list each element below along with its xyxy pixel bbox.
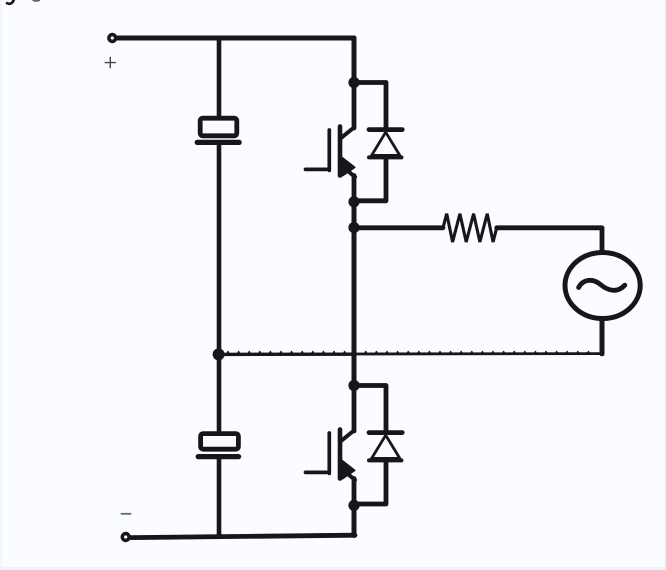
Q1 emitter diagonal	[341, 165, 356, 177]
D1 anode bar	[369, 155, 401, 159]
D1 triangle	[372, 132, 400, 155]
wire: output to resistor	[354, 225, 443, 230]
capacitor C1	[197, 118, 239, 142]
wire: C2 to bottom bus	[217, 459, 222, 537]
Q2 collector diagonal	[340, 431, 354, 442]
wire: C1 to midpoint node	[217, 145, 222, 352]
capacitor C2	[217, 357, 222, 433]
Q2 emitter diagonal	[341, 468, 356, 480]
node: Q2 collector junction	[348, 380, 359, 391]
negative terminal	[122, 534, 129, 541]
wire: bottom DC- bus	[131, 535, 355, 537]
wire: Q1 emitter stub	[352, 176, 357, 202]
Q1 collector diagonal	[340, 128, 354, 139]
Q2 gate lead	[306, 471, 329, 475]
D1 cathode bar	[369, 127, 402, 132]
IGBT Q1	[306, 77, 360, 208]
wire: D2 bottom branch	[356, 460, 386, 504]
D2 triangle	[372, 435, 400, 458]
plus label	[105, 57, 115, 67]
node: Q2 emitter junction	[348, 500, 359, 511]
diode D1 (anti-parallel with Q1)	[354, 83, 402, 201]
wire: Q2 collector stub	[352, 386, 357, 432]
Q1 emitter arrow	[341, 157, 355, 176]
wire: AC source bottom lead	[600, 319, 605, 354]
wire: D1 bottom branch	[356, 157, 386, 200]
D2 anode bar	[369, 458, 401, 462]
node: phase output junction	[348, 222, 359, 233]
positive terminal	[109, 35, 116, 42]
wire: D1 top branch	[354, 83, 386, 129]
node: capacitor midpoint junction	[213, 348, 225, 360]
wire: Q1 collector stub	[352, 83, 357, 129]
node: Q1 collector junction	[348, 77, 359, 88]
AC source V1	[565, 253, 640, 354]
resistor R load	[443, 214, 497, 242]
wire: Q2 emitter stub	[352, 479, 357, 506]
D2 cathode bar	[369, 430, 402, 435]
wire: Q2 emitter to bottom bus	[352, 505, 357, 536]
Q1 gate bar	[327, 130, 331, 170]
Q2 body bar	[338, 430, 343, 479]
Q1 gate lead	[306, 168, 329, 172]
wire: trunk Q1 emitter to Q2 collector	[352, 202, 357, 386]
Q2 gate bar	[327, 433, 331, 473]
Q1 body bar	[338, 127, 343, 176]
node: Q1 emitter junction	[348, 196, 359, 207]
minus label	[121, 513, 130, 515]
IGBT Q2	[306, 380, 360, 511]
sine symbol	[579, 280, 625, 290]
wire: return line midpoint to AC source (with tick marks)	[219, 351, 602, 354]
wire: trunk top to Q1 collector	[352, 38, 357, 80]
wire: D2 top branch	[354, 386, 386, 432]
wire: resistor to AC source	[497, 228, 602, 251]
wire: top DC+ bus	[118, 36, 355, 41]
cropped text fragment (top-left letter descenders)	[7, 0, 41, 4]
wire: capacitor branch from top bus	[217, 38, 222, 119]
Q2 emitter arrow	[341, 460, 355, 479]
diode D2 (anti-parallel with Q2)	[354, 386, 402, 505]
